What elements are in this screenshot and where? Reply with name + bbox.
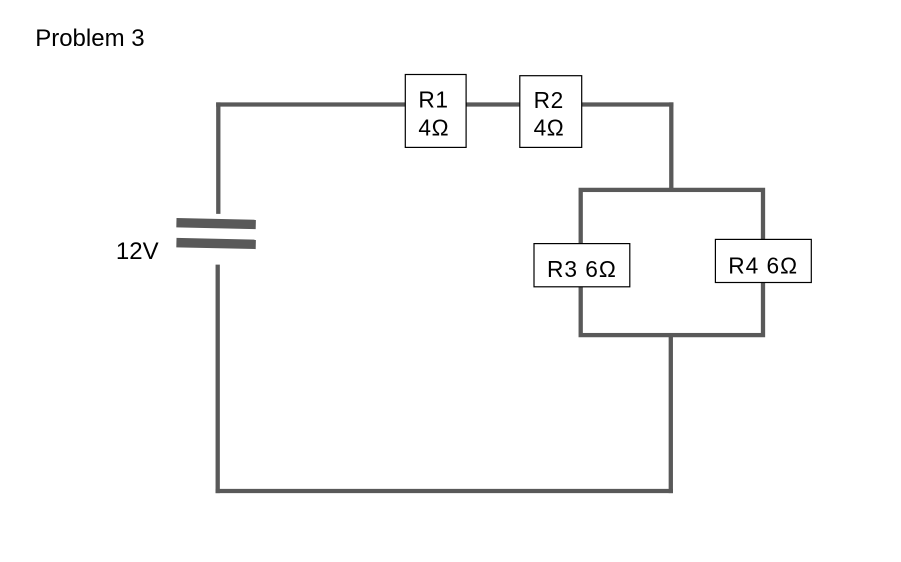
svg-text:R4 6Ω: R4 6Ω [728,253,798,279]
wire: drop from parallel block bottom to bottom rail [669,333,673,493]
parallel network loop (R3 and R4 branches) [581,190,763,335]
wire: battery negative lead (vertical, bottom-left corner up to battery bottom) [216,265,220,494]
svg-text:4Ω: 4Ω [418,114,449,140]
svg-text:R3 6Ω: R3 6Ω [547,256,617,282]
svg-text:R2: R2 [534,87,564,113]
resistor R2 box [520,76,582,148]
resistor R1 box [405,75,466,148]
svg-text:Problem 3: Problem 3 [35,25,144,52]
svg-text:R1: R1 [418,87,448,113]
resistor R3 box [534,244,630,287]
wire: right drop from top rail into parallel block top [669,102,673,191]
battery V1 bottom plate [176,238,256,249]
wire: battery positive lead (vertical, battery top to top-left corner) [216,102,220,213]
svg-text:4Ω: 4Ω [534,115,565,141]
wire: bottom rail (horizontal return) [216,489,673,493]
battery V1 top plate [176,218,256,229]
wire: top rail (horizontal, through R1 and R2) [216,102,673,106]
resistor R4 box [715,239,811,282]
svg-text:12V: 12V [116,238,159,265]
